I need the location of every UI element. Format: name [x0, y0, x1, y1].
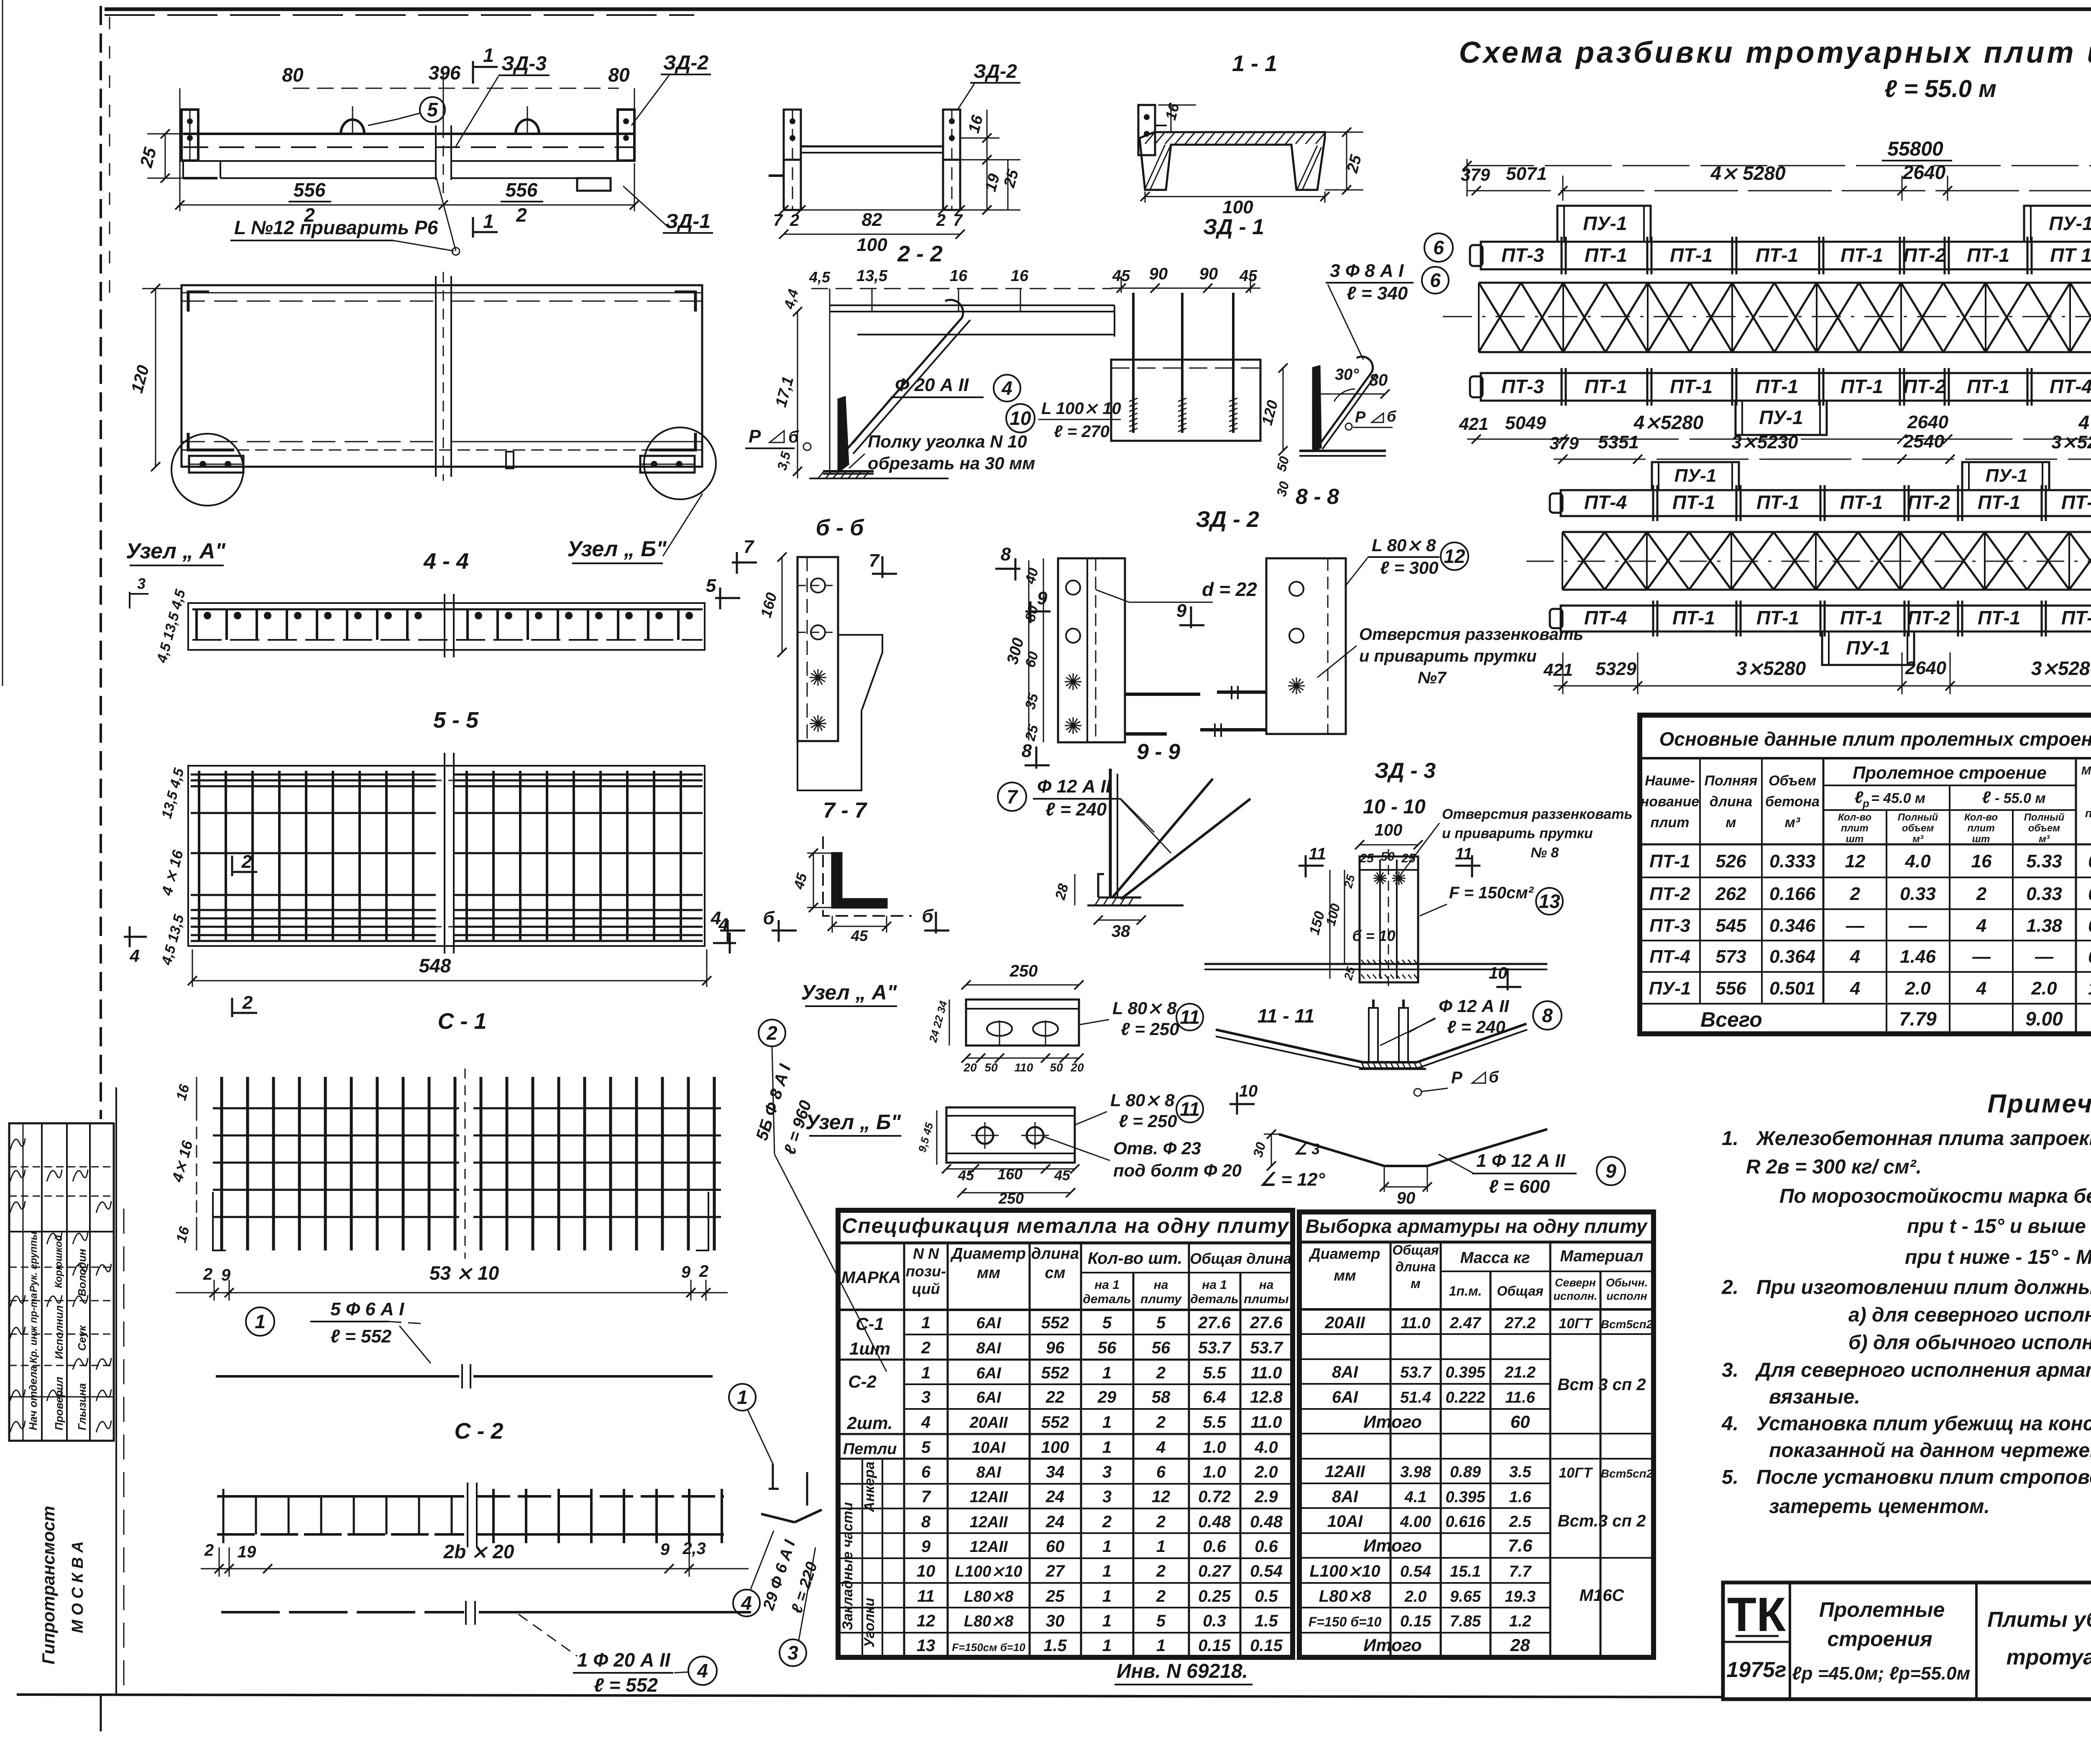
svg-text:- 55.0 м: - 55.0 м: [1995, 790, 2046, 806]
anchor bars sketch: [772, 1464, 774, 1489]
7-7 section marks: [732, 562, 757, 564]
9-9 base: [1098, 897, 1141, 899]
svg-text:ℓp =45.0м; ℓp=55.0м: ℓp =45.0м; ℓp=55.0м: [1792, 1663, 1970, 1684]
svg-text:7.7: 7.7: [1509, 1563, 1532, 1580]
svg-text:90: 90: [1199, 265, 1218, 283]
scheme1 PU-1 box upper left: [1557, 206, 1651, 242]
table Osnovnye dannye plit proletnyh stroenij: [1640, 715, 2091, 1034]
svg-text:2b ⨯ 20: 2b ⨯ 20: [443, 1541, 514, 1562]
svg-text:2640: 2640: [1905, 658, 1946, 678]
svg-text:Закладные части: Закладные части: [840, 1502, 856, 1631]
svg-text:Для северного исполнения ар: Для северного исполнения арматурные сетк…: [1755, 1359, 2091, 1381]
svg-text:8: 8: [1001, 544, 1011, 565]
svg-text:9.65: 9.65: [1450, 1588, 1481, 1605]
svg-text:м³: м³: [1912, 833, 1924, 845]
svg-text:1.38: 1.38: [2026, 915, 2062, 936]
t4 material cells: [1550, 1333, 1654, 1335]
svg-text:0.96: 0.96: [2088, 946, 2091, 967]
svg-text:обрезать на 30 мм: обрезать на 30 мм: [868, 453, 1035, 473]
scheme1 bottom dim row: [1467, 439, 2091, 440]
svg-text:6.4: 6.4: [1203, 1388, 1226, 1406]
svg-text:12АII: 12АII: [970, 1488, 1008, 1506]
svg-text:ПТ-1: ПТ-1: [1967, 244, 2009, 266]
svg-text:262: 262: [1715, 884, 1746, 904]
10-10 plate: [1360, 856, 1418, 982]
svg-text:2: 2: [1976, 884, 1987, 904]
svg-text:53.7: 53.7: [1400, 1364, 1432, 1381]
svg-text:0.89: 0.89: [1450, 1463, 1481, 1481]
svg-text:7: 7: [921, 1488, 931, 1506]
lifting loop left: [341, 120, 364, 134]
b-b vertical angle: [838, 397, 848, 471]
svg-text:ПТ-4: ПТ-4: [1584, 491, 1627, 513]
svg-text:ПТ-1: ПТ-1: [1672, 491, 1715, 513]
svg-text:556: 556: [294, 179, 326, 201]
svg-text:мм: мм: [1334, 1267, 1356, 1284]
svg-text:2: 2: [766, 1022, 777, 1044]
svg-text:Уголки: Уголки: [861, 1598, 877, 1647]
svg-text:552: 552: [1041, 1413, 1069, 1432]
svg-text:4: 4: [129, 946, 139, 966]
svg-text:11.6: 11.6: [1505, 1389, 1535, 1406]
svg-text:60: 60: [1511, 1412, 1530, 1432]
svg-text:30°: 30°: [1335, 366, 1359, 383]
lifting loop right: [516, 120, 539, 134]
svg-text:1.46: 1.46: [1900, 946, 1936, 967]
svg-text:1: 1: [1102, 1612, 1112, 1630]
svg-text:56: 56: [1152, 1339, 1171, 1357]
svg-text:показанной на данном чертеж: показанной на данном чертеже.: [1769, 1439, 2091, 1462]
svg-text:45: 45: [958, 1168, 974, 1184]
svg-text:Диаметр: Диаметр: [1309, 1245, 1380, 1262]
svg-text:13,5: 13,5: [856, 267, 888, 285]
svg-text:1 - 1: 1 - 1: [1232, 51, 1277, 76]
svg-text:552: 552: [1041, 1364, 1069, 1382]
svg-text:1.25: 1.25: [2088, 978, 2091, 999]
7-7 dims: [782, 557, 783, 652]
svg-text:Северн: Северн: [1555, 1276, 1596, 1289]
svg-text:Проверил: Проверил: [53, 1377, 65, 1430]
svg-text:м: м: [1411, 1276, 1421, 1291]
svg-text:5: 5: [706, 575, 716, 596]
svg-text:Отв. Ф 23: Отв. Ф 23: [1113, 1138, 1201, 1158]
svg-text:16: 16: [950, 267, 968, 285]
svg-text:б - б: б - б: [816, 515, 864, 540]
svg-text:плит: плит: [1841, 823, 1869, 834]
svg-text:11.0: 11.0: [1251, 1413, 1282, 1432]
svg-text:0.166: 0.166: [1769, 884, 1816, 904]
svg-text:45: 45: [1239, 267, 1258, 285]
svg-text:9: 9: [1605, 1160, 1616, 1182]
svg-text:ПТ-1: ПТ-1: [1672, 607, 1715, 629]
callout circle 4 right: [733, 1590, 760, 1616]
svg-text:1975г: 1975г: [1726, 1658, 1786, 1682]
svg-text:2: 2: [1850, 884, 1861, 904]
svg-text:1 Ф 20 А II: 1 Ф 20 А II: [577, 1649, 671, 1671]
svg-text:4: 4: [711, 908, 721, 928]
svg-text:11.0: 11.0: [1251, 1364, 1282, 1382]
svg-text:исполн: исполн: [1606, 1290, 1647, 1302]
svg-text:11.0: 11.0: [1401, 1314, 1430, 1332]
svg-text:8АI: 8АI: [1332, 1363, 1358, 1381]
svg-text:1: 1: [1156, 1537, 1166, 1556]
svg-text:80: 80: [608, 64, 630, 86]
svg-text:0.6: 0.6: [1255, 1537, 1278, 1556]
b-b baseline: [809, 478, 948, 479]
svg-text:плиты: плиты: [1244, 1292, 1289, 1306]
svg-text:2.9: 2.9: [1254, 1488, 1278, 1506]
beam center joint: [435, 125, 437, 180]
svg-text:1п.м.: 1п.м.: [1449, 1283, 1482, 1299]
5-5 center break: [444, 753, 445, 954]
svg-text:1.6: 1.6: [1509, 1488, 1532, 1506]
svg-text:1.: 1.: [1722, 1127, 1738, 1150]
label 7 F12AII: [998, 782, 1026, 811]
svg-text:пози-: пози-: [906, 1263, 946, 1280]
svg-text:27.6: 27.6: [1198, 1314, 1231, 1332]
section mark 2 top: [231, 856, 233, 876]
svg-text:25: 25: [1045, 1587, 1065, 1605]
svg-text:51.4: 51.4: [1400, 1389, 1431, 1406]
svg-text:ПТ-1: ПТ-1: [1649, 851, 1690, 872]
svg-text:ℓ = 600: ℓ = 600: [1489, 1176, 1550, 1197]
svg-text:L100⨯10: L100⨯10: [955, 1563, 1022, 1580]
svg-text:2: 2: [936, 211, 946, 230]
svg-text:ПТ-1: ПТ-1: [1756, 376, 1798, 397]
plan anchor plate BR: [640, 456, 695, 473]
svg-text:L100⨯10: L100⨯10: [1309, 1562, 1380, 1580]
svg-text:12АII: 12АII: [1325, 1462, 1365, 1481]
svg-text:526: 526: [1715, 851, 1746, 872]
svg-text:на: на: [1259, 1278, 1274, 1292]
svg-text:5.33: 5.33: [2026, 851, 2062, 872]
svg-text:8: 8: [1022, 741, 1032, 761]
svg-text:Пролетное строение: Пролетное строение: [1853, 763, 2047, 782]
7-7 angle section below: [823, 836, 912, 916]
svg-text:9 - 9: 9 - 9: [1137, 740, 1180, 764]
svg-text:б: б: [763, 908, 775, 928]
svg-text:при t - 15° и выше - Мрз: при t - 15° и выше - Мрз 200: [1907, 1215, 2091, 1237]
scheme2 dim row top: [1554, 459, 2091, 460]
svg-text:ПТ-3: ПТ-3: [1501, 244, 1544, 266]
svg-text:5: 5: [921, 1438, 931, 1457]
scheme1 plate row lower: [1481, 373, 2091, 401]
svg-text:ПТ-1: ПТ-1: [1585, 376, 1627, 397]
plan corner angle BR: [649, 433, 695, 450]
1-1 end bracket: [1138, 105, 1155, 155]
svg-text:L 80⨯ 8: L 80⨯ 8: [1372, 535, 1436, 555]
left stamp table: [9, 1123, 114, 1441]
svg-text:ЗД - 2: ЗД - 2: [1196, 507, 1259, 532]
scheme2 plate row lower: [1561, 606, 2091, 631]
svg-text:0.15: 0.15: [1250, 1636, 1283, 1655]
svg-text:1.0: 1.0: [1203, 1463, 1226, 1481]
svg-text:2: 2: [516, 204, 527, 226]
svg-text:2: 2: [921, 1339, 930, 1357]
svg-text:L №12 приварить Р6: L №12 приварить Р6: [234, 217, 438, 238]
svg-text:4: 4: [741, 1592, 752, 1614]
svg-text:552: 552: [1041, 1314, 1069, 1332]
svg-text:7: 7: [773, 211, 783, 230]
svg-text:4: 4: [1850, 978, 1860, 999]
section 2-2 drawing: [784, 110, 801, 160]
svg-text:82: 82: [862, 210, 882, 230]
8-8 hook rod: [1317, 357, 1373, 447]
svg-text:60: 60: [1046, 1537, 1065, 1556]
svg-text:2: 2: [1156, 1562, 1166, 1580]
svg-text:4: 4: [921, 1413, 930, 1432]
svg-text:0.222: 0.222: [1445, 1389, 1485, 1406]
t1 data rows: [1640, 877, 2091, 878]
svg-text:Схема разбивки тротуарных п: Схема разбивки тротуарных плит и убежищ: [1459, 36, 2091, 69]
svg-text:396: 396: [429, 62, 461, 84]
svg-text:0.15: 0.15: [1198, 1636, 1231, 1655]
svg-text:Общая: Общая: [1497, 1283, 1543, 1299]
svg-text:Плиты убежищ. Схема разбивк: Плиты убежищ. Схема разбивки: [1987, 1608, 2091, 1632]
svg-text:на: на: [1154, 1278, 1168, 1292]
svg-text:4: 4: [1001, 377, 1012, 399]
svg-text:ПУ-1: ПУ-1: [1846, 637, 1890, 659]
svg-text:4⨯ 5280: 4⨯ 5280: [1710, 162, 1786, 184]
top border: [105, 8, 2091, 11]
11-11 base hatch: [1359, 1068, 1426, 1070]
plan corner angle BL: [188, 433, 234, 450]
svg-text:Кр. инж пр-та: Кр. инж пр-та: [28, 1293, 39, 1363]
svg-text:Анкера: Анкера: [861, 1462, 877, 1513]
svg-text:ℓ = 240: ℓ = 240: [1045, 799, 1107, 820]
svg-text:27: 27: [1045, 1562, 1065, 1580]
svg-text:10 - 10: 10 - 10: [1363, 796, 1426, 818]
svg-text:19.3: 19.3: [1505, 1588, 1536, 1605]
svg-text:плит: плит: [1967, 823, 1995, 834]
svg-text:p: p: [1862, 797, 1869, 810]
svg-text:16: 16: [1971, 851, 1992, 872]
svg-text:ПТ-1: ПТ-1: [1978, 491, 2020, 513]
svg-text:Итого: Итого: [1363, 1412, 1422, 1432]
svg-text:Володин: Володин: [76, 1249, 88, 1296]
svg-text:20АII: 20АII: [1324, 1314, 1365, 1332]
svg-text:1: 1: [1102, 1562, 1112, 1580]
svg-text:24: 24: [1045, 1488, 1065, 1506]
svg-text:4,5: 4,5: [809, 268, 831, 286]
svg-text:ПТ-2: ПТ-2: [1903, 244, 1946, 266]
svg-text:ПТ-1: ПТ-1: [1756, 244, 1798, 266]
svg-text:9: 9: [1176, 601, 1187, 621]
svg-text:м³: м³: [1785, 815, 1801, 831]
scheme1 PU-1 box lower: [1736, 401, 1827, 435]
svg-text:1: 1: [921, 1314, 930, 1332]
svg-text:а) для северного исполнени: а) для северного исполнения - ВСН 151-68: [1848, 1304, 2091, 1326]
svg-text:Инв. N 69218.: Инв. N 69218.: [1117, 1660, 1248, 1682]
svg-text:Вст 3 сп 2: Вст 3 сп 2: [1557, 1375, 1646, 1394]
small weld mark mid: [506, 452, 514, 468]
svg-text:5071: 5071: [1506, 164, 1547, 184]
svg-text:3.: 3.: [1722, 1359, 1738, 1381]
svg-text:3.5: 3.5: [1509, 1463, 1532, 1481]
svg-text:1: 1: [1102, 1364, 1112, 1382]
svg-text:0.333: 0.333: [1769, 851, 1815, 872]
svg-text:Обычн.: Обычн.: [1606, 1276, 1648, 1289]
svg-text:Спецификация металла на одну: Спецификация металла на одну плиту: [842, 1214, 1289, 1237]
callout circle 3 right: [780, 1639, 806, 1666]
svg-text:и приварить прутки: и приварить прутки: [1442, 826, 1593, 841]
5-5 left mark 4: [124, 936, 147, 938]
svg-text:2: 2: [1156, 1364, 1166, 1382]
svg-text:деталь: деталь: [1083, 1292, 1131, 1306]
svg-text:Всего: Всего: [1700, 1008, 1762, 1031]
svg-text:Диаметр: Диаметр: [950, 1245, 1026, 1263]
title block frame: [1723, 1582, 2091, 1699]
svg-text:0.501: 0.501: [1769, 978, 1815, 999]
svg-text:8 - 8: 8 - 8: [1296, 485, 1339, 509]
svg-text:м: м: [1725, 815, 1736, 831]
svg-text:Кол-во: Кол-во: [1964, 812, 1998, 823]
svg-text:ПУ-1: ПУ-1: [1583, 212, 1627, 234]
svg-text:Узел „ Б": Узел „ Б": [567, 537, 667, 561]
bar C-2 pos4: [221, 1611, 464, 1613]
svg-text:объем: объем: [2028, 823, 2060, 834]
svg-text:0.6: 0.6: [1203, 1537, 1226, 1556]
svg-text:34: 34: [1046, 1463, 1065, 1481]
svg-text:4: 4: [697, 1660, 708, 1682]
svg-text:11: 11: [1180, 1098, 1200, 1120]
svg-text:1 Ф 12 А II: 1 Ф 12 А II: [1476, 1150, 1566, 1171]
svg-text:9.00: 9.00: [2025, 1008, 2063, 1030]
section 1-1 slab: [1140, 132, 1325, 190]
svg-text:19: 19: [238, 1543, 256, 1561]
svg-text:см: см: [1045, 1264, 1065, 1282]
table Vyborka armatury na odnu plitu: [1299, 1212, 1654, 1657]
svg-text:2.0: 2.0: [1904, 978, 1931, 999]
svg-text:ПТ 1: ПТ 1: [2050, 244, 2091, 266]
svg-text:ПУ-1: ПУ-1: [1759, 406, 1803, 428]
svg-text:ПТ-1: ПТ-1: [1670, 244, 1713, 266]
svg-text:ЗД - 3: ЗД - 3: [1375, 759, 1436, 783]
svg-text:0.27: 0.27: [1198, 1562, 1232, 1580]
svg-text:545: 545: [1715, 915, 1746, 936]
svg-text:8АI: 8АI: [1332, 1488, 1358, 1506]
svg-text:5: 5: [427, 99, 438, 120]
svg-text:2: 2: [203, 1265, 212, 1283]
svg-text:L80⨯8: L80⨯8: [964, 1613, 1014, 1630]
svg-text:ℓ = 250: ℓ = 250: [1119, 1111, 1177, 1131]
svg-text:5 Ф 6 А I: 5 Ф 6 А I: [330, 1299, 404, 1319]
svg-text:2: 2: [242, 992, 253, 1013]
t3 group separators: [838, 1359, 1293, 1361]
svg-text:0.25: 0.25: [1198, 1587, 1231, 1605]
section mark 2 bottom: [231, 998, 233, 1017]
svg-text:затереть цементом.: затереть цементом.: [1769, 1496, 1990, 1518]
svg-text:деталь: деталь: [1190, 1292, 1238, 1306]
svg-text:при t ниже - 15° - М: при t ниже - 15° - Мрз 300: [1905, 1246, 2091, 1268]
svg-text:шт: шт: [1972, 833, 1990, 845]
svg-text:4.: 4.: [1721, 1413, 1738, 1435]
svg-text:ПТ-1: ПТ-1: [1840, 491, 1883, 513]
1-1 dim 16: [1171, 105, 1172, 132]
svg-text:и приварить прутки: и приварить прутки: [1359, 647, 1536, 665]
svg-text:∠ = 12°: ∠ = 12°: [1260, 1169, 1325, 1190]
plan center joint: [435, 276, 437, 477]
svg-text:2.0: 2.0: [1404, 1588, 1427, 1605]
svg-text:2540: 2540: [1903, 431, 1944, 452]
bar position 1 callout: [246, 1307, 274, 1336]
svg-text:Вст.3 сп 2: Вст.3 сп 2: [1558, 1512, 1646, 1530]
svg-text:1: 1: [1102, 1413, 1112, 1432]
svg-text:0.616: 0.616: [1445, 1513, 1485, 1531]
svg-text:13: 13: [917, 1636, 936, 1655]
svg-text:7.79: 7.79: [1899, 1008, 1937, 1030]
svg-text:0.48: 0.48: [1250, 1513, 1283, 1531]
svg-text:1: 1: [1102, 1636, 1112, 1655]
C-1 left dims: [196, 1077, 197, 1108]
svg-text:100: 100: [1222, 197, 1253, 217]
uzel A plate: [966, 1000, 1079, 1046]
svg-text:11: 11: [917, 1587, 935, 1605]
svg-text:6: 6: [921, 1463, 931, 1481]
svg-text:556: 556: [506, 179, 538, 201]
svg-text:1: 1: [1102, 1438, 1112, 1457]
marks 11: [1299, 865, 1324, 867]
svg-text:1: 1: [1156, 1636, 1166, 1655]
svg-text:90: 90: [1397, 1189, 1416, 1207]
svg-text:38: 38: [1112, 922, 1130, 941]
svg-text:50: 50: [984, 1061, 998, 1074]
2-2 dims bottom: [784, 210, 960, 211]
svg-text:379: 379: [1461, 165, 1490, 184]
svg-text:б: б: [922, 906, 934, 926]
svg-text:12АII: 12АII: [970, 1513, 1008, 1531]
svg-text:Материал: Материал: [1560, 1248, 1643, 1265]
svg-text:0.15: 0.15: [1400, 1613, 1431, 1630]
svg-text:R 2в = 300 кг/ см².: R 2в = 300 кг/ см².: [1746, 1156, 1922, 1178]
detail circle A: [171, 434, 243, 506]
svg-text:Узел „ Б": Узел „ Б": [805, 1110, 902, 1134]
svg-text:8АI: 8АI: [976, 1464, 1002, 1481]
svg-text:2.0: 2.0: [1254, 1463, 1278, 1481]
svg-text:5 - 5: 5 - 5: [433, 708, 479, 733]
svg-text:96: 96: [1046, 1339, 1065, 1357]
svg-text:2,3: 2,3: [682, 1539, 706, 1558]
svg-text:длина: длина: [1396, 1259, 1436, 1274]
svg-text:ПТ-1: ПТ-1: [2061, 607, 2091, 629]
svg-text:1: 1: [1102, 1587, 1112, 1605]
svg-text:0.54: 0.54: [1400, 1563, 1431, 1580]
svg-text:2: 2: [699, 1262, 708, 1281]
svg-text:ПТ-2: ПТ-2: [1649, 884, 1690, 904]
svg-text:ПТ-2: ПТ-2: [1907, 491, 1950, 513]
9-9 dims left: [1043, 558, 1044, 742]
svg-text:М О С К В А: М О С К В А: [69, 1541, 87, 1633]
svg-text:ПТ-1: ПТ-1: [1585, 244, 1627, 266]
svg-text:N N: N N: [913, 1245, 939, 1262]
svg-text:С - 1: С - 1: [437, 1009, 486, 1034]
svg-text:53 ⨯ 10: 53 ⨯ 10: [429, 1262, 499, 1284]
C-1 corner frame: [213, 1192, 226, 1250]
svg-text:тротуарных плит и убежищ: тротуарных плит и убежищ: [2007, 1645, 2091, 1669]
svg-text:2шт.: 2шт.: [846, 1413, 892, 1433]
svg-text:110: 110: [1015, 1061, 1033, 1074]
scheme1 truss band: [1479, 282, 2091, 284]
svg-text:F=150см б=10: F=150см б=10: [952, 1641, 1025, 1654]
svg-text:27.2: 27.2: [1504, 1314, 1536, 1332]
svg-text:ЗД-2: ЗД-2: [663, 52, 708, 74]
svg-text:ПУ-1: ПУ-1: [2049, 212, 2091, 234]
section 5-5 mesh: [188, 766, 705, 946]
tb TK cell: [1789, 1582, 1791, 1699]
svg-text:шт: шт: [1846, 833, 1864, 845]
svg-text:ПТ-1: ПТ-1: [1978, 607, 2020, 629]
svg-text:плиту: плиту: [1140, 1292, 1182, 1306]
